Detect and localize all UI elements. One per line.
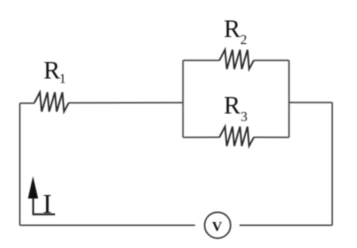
wire: outer loop right vertical [331,103,333,226]
resistor R3 [219,127,253,146]
current arrow I [28,176,55,214]
wire: bottom right segment from voltmeter [240,224,333,226]
wire: R3 right lead [254,136,289,138]
voltmeter V [205,212,231,238]
wire: R1 left lead [20,102,35,104]
wire: R1 right lead to parallel box [69,102,184,104]
svg-text:V: V [212,220,222,235]
wire: parallel box right vertical [288,60,290,137]
wire: bottom left segment to voltmeter [20,224,195,226]
wire: middle connector from parallel box to right vertical [289,102,332,104]
wire: outer loop left vertical [19,103,21,225]
resistor R2 [219,50,253,69]
svg-text:2: 2 [240,32,247,47]
wire: R2 left lead [183,59,220,61]
resistor R1 [34,92,68,111]
svg-text:3: 3 [241,109,248,124]
wire: R2 right lead [254,59,289,61]
svg-text:R: R [44,58,61,85]
svg-text:R: R [224,92,241,119]
wire: R3 left lead [183,136,220,138]
svg-text:I: I [43,188,52,219]
wire: parallel box left vertical [182,60,184,137]
svg-text:R: R [224,16,241,43]
svg-text:1: 1 [59,71,66,86]
